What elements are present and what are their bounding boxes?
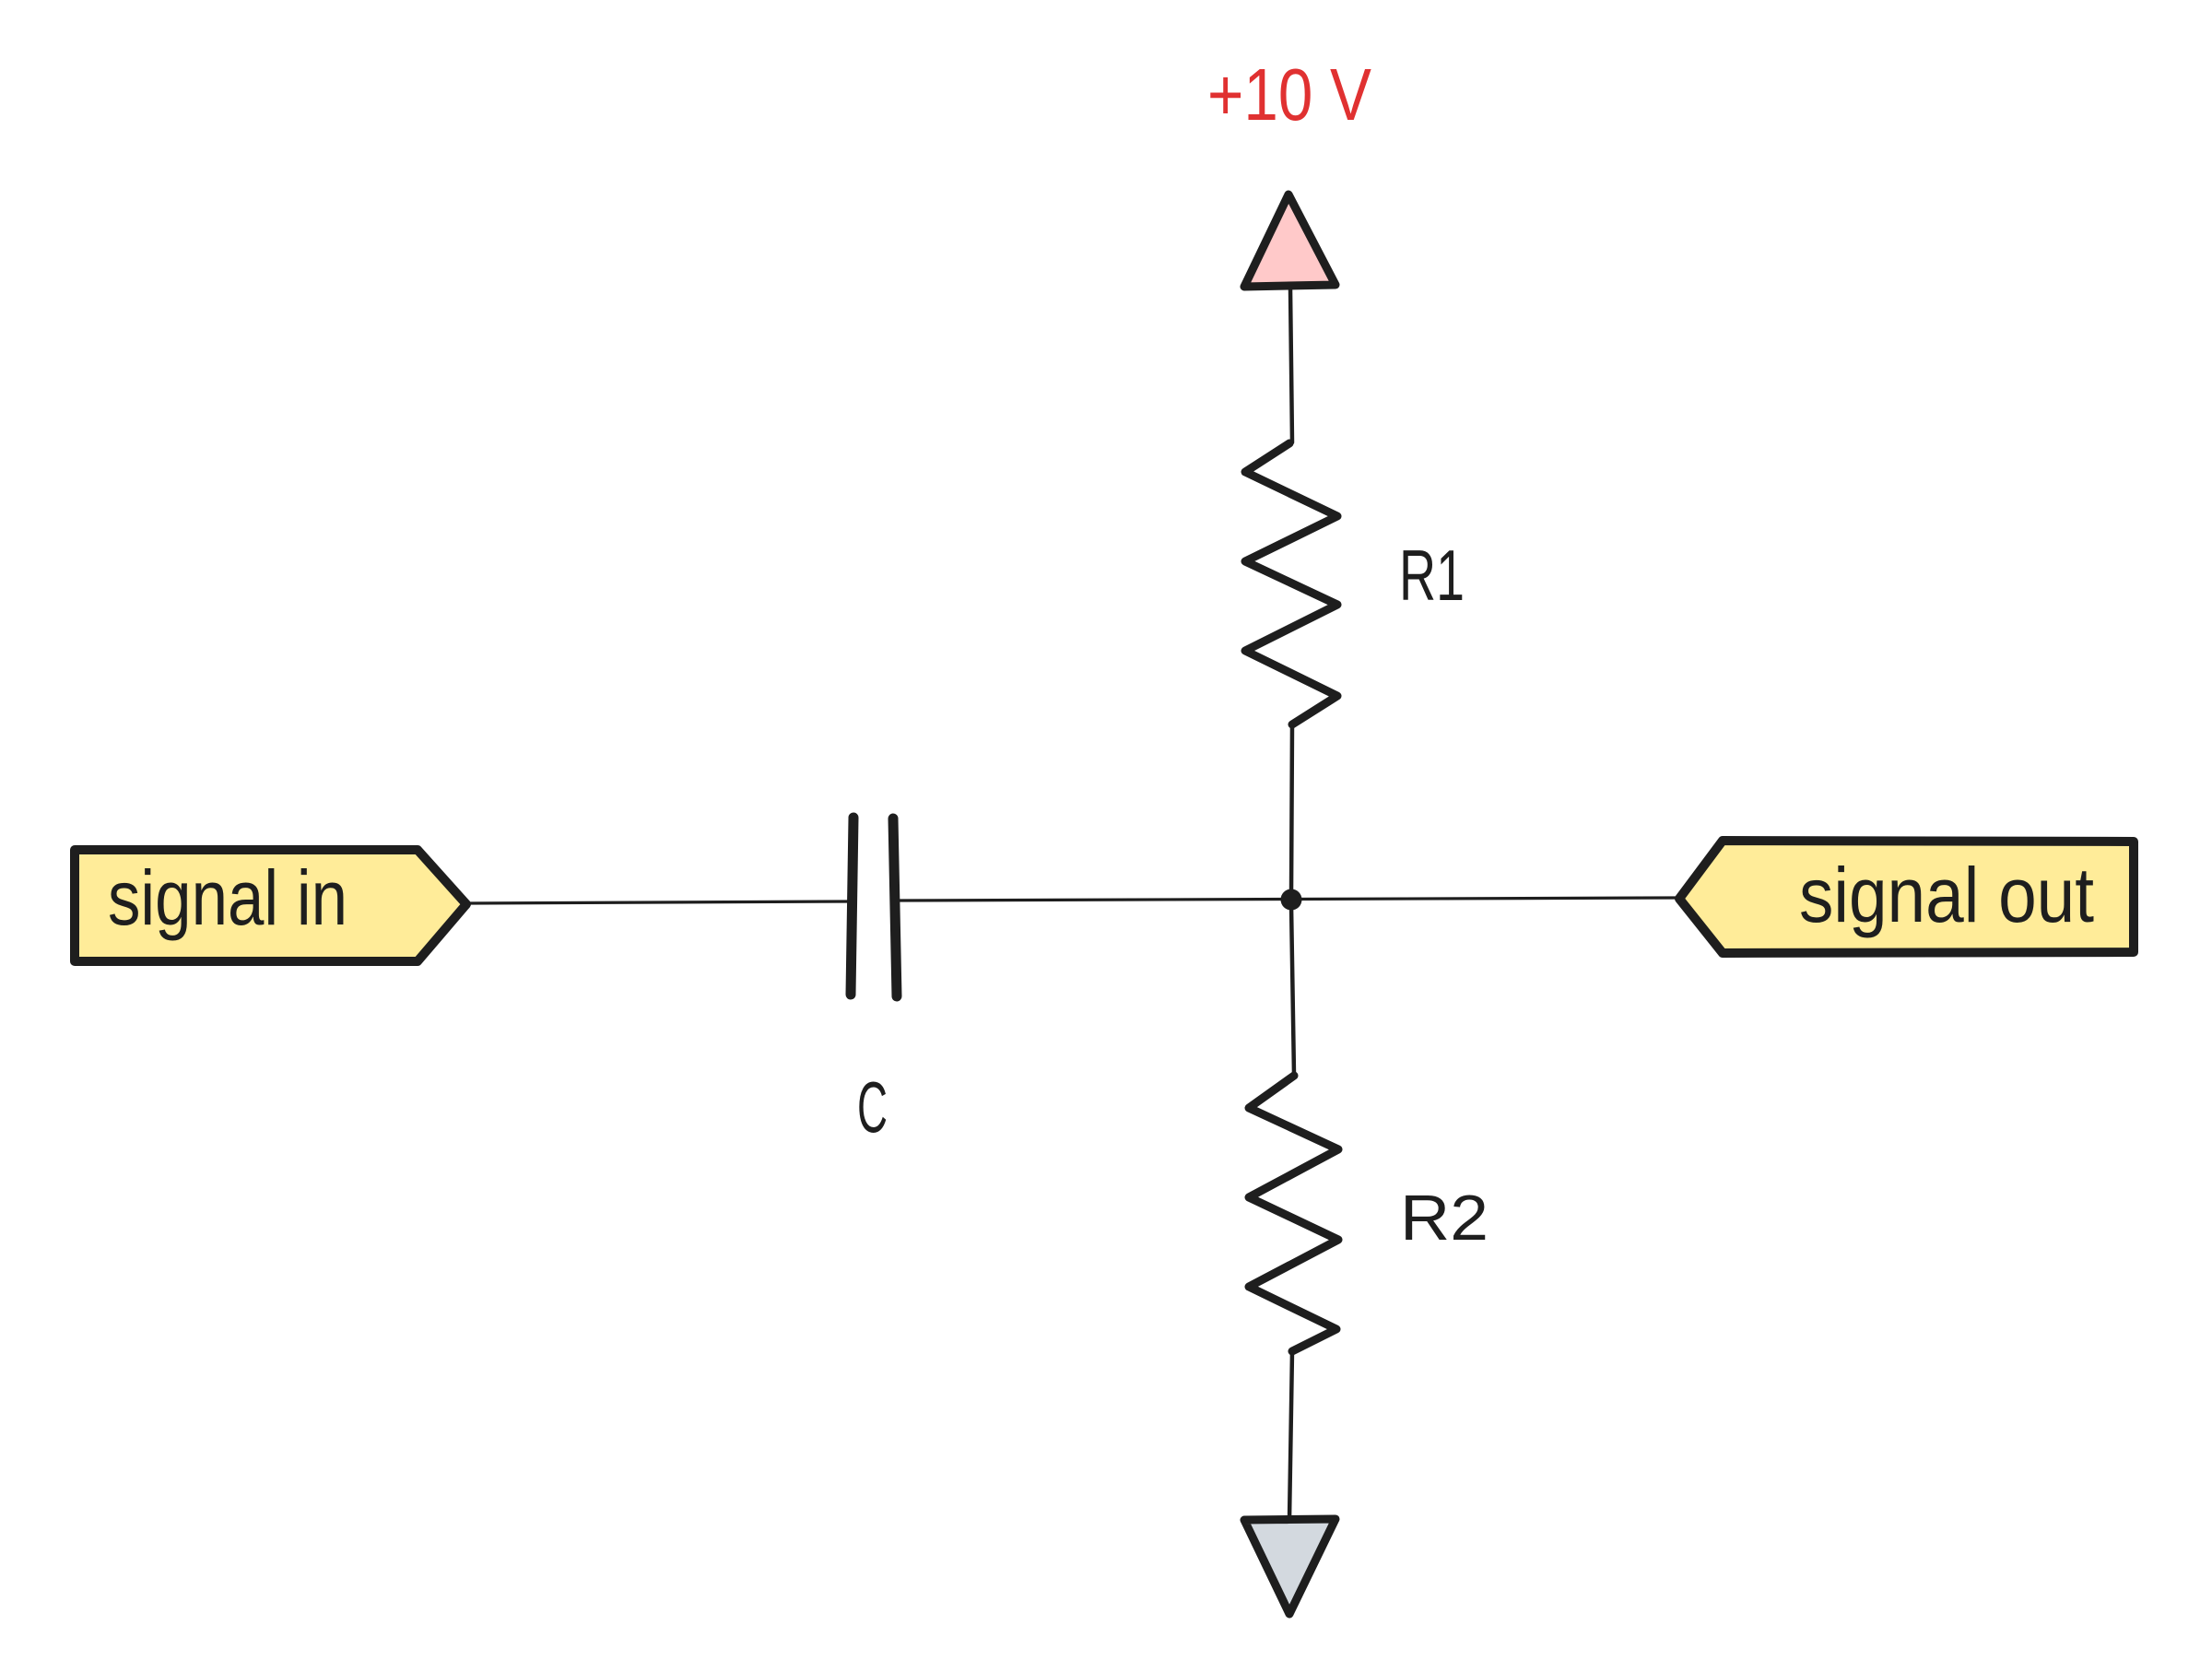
svg-text:signal out: signal out xyxy=(1799,852,2094,938)
resistor R1 xyxy=(1245,443,1337,724)
signal out flag xyxy=(1679,841,2134,953)
capacitor C right plate xyxy=(893,818,897,996)
wire node to R2 xyxy=(1291,905,1294,1075)
wire power to R1 xyxy=(1290,288,1292,442)
power symbol VCC xyxy=(1244,194,1335,287)
wire R2 to ground xyxy=(1289,1351,1292,1520)
wire signal in to capacitor xyxy=(466,901,850,903)
ground symbol xyxy=(1244,1519,1335,1614)
svg-text:signal in: signal in xyxy=(108,854,347,941)
svg-text:R1: R1 xyxy=(1399,535,1465,616)
signal in flag xyxy=(75,850,466,961)
wire R1 to node xyxy=(1291,724,1292,894)
svg-text:R2: R2 xyxy=(1400,1182,1488,1254)
resistor R2 xyxy=(1249,1076,1338,1351)
svg-text:C: C xyxy=(857,1066,888,1148)
capacitor C left plate xyxy=(851,818,853,995)
wire capacitor to node to signal out xyxy=(898,898,1677,901)
node junction dot xyxy=(1281,889,1302,911)
svg-text:+10 V: +10 V xyxy=(1207,53,1372,135)
